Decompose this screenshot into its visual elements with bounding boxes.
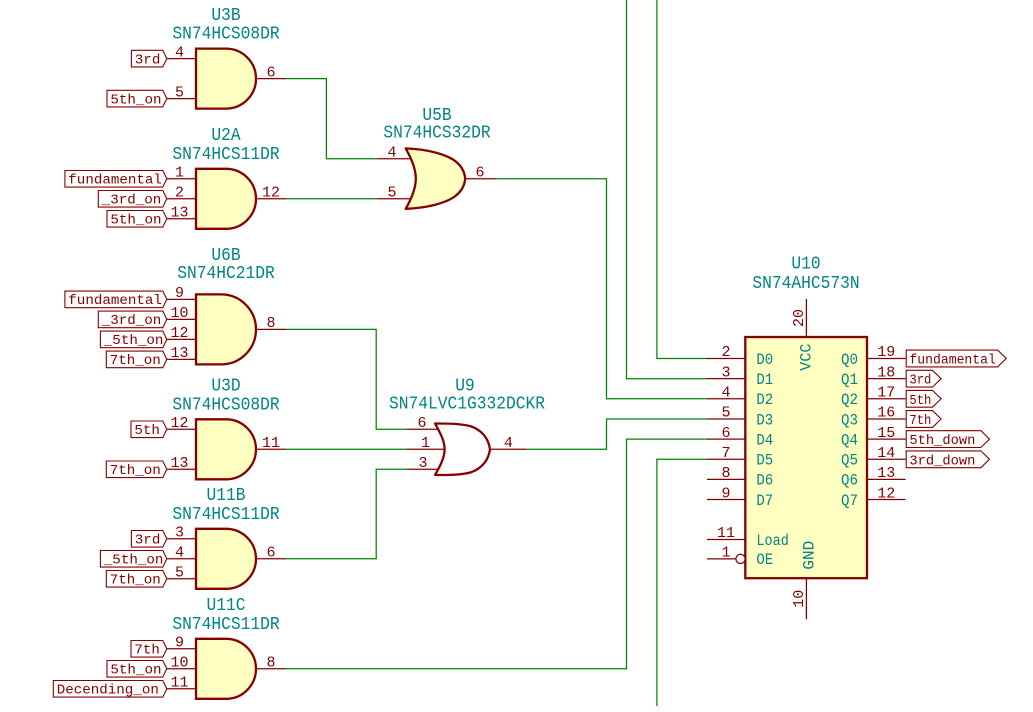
global label 7th_on bbox=[106, 351, 167, 369]
svg-text:_3rd_on: _3rd_on bbox=[101, 193, 162, 209]
svg-text:10: 10 bbox=[791, 590, 808, 608]
svg-text:_3rd_on: _3rd_on bbox=[101, 313, 162, 329]
global label 7th bbox=[131, 641, 167, 659]
U10 pin 5 D3 bbox=[707, 418, 745, 420]
global label 5th_on bbox=[107, 661, 167, 679]
AND gate U11B SN74HCS11DR bbox=[167, 485, 286, 589]
AND gate U11C SN74HCS11DR bbox=[167, 595, 286, 699]
svg-text:SN74HCS32DR: SN74HCS32DR bbox=[383, 122, 490, 143]
svg-text:12: 12 bbox=[170, 325, 188, 342]
svg-text:Q1: Q1 bbox=[841, 371, 858, 389]
svg-text:Q5: Q5 bbox=[841, 452, 858, 470]
svg-text:14: 14 bbox=[877, 445, 895, 462]
svg-text:Q2: Q2 bbox=[841, 391, 858, 409]
svg-text:7th_on: 7th_on bbox=[110, 463, 161, 479]
global label _3rd_on bbox=[98, 311, 167, 329]
svg-text:SN74LVC1G332DCKR: SN74LVC1G332DCKR bbox=[389, 394, 545, 415]
svg-text:19: 19 bbox=[877, 344, 895, 361]
AND gate U2A SN74HCS11DR bbox=[167, 125, 286, 229]
svg-text:6: 6 bbox=[266, 64, 275, 81]
svg-text:fundamental: fundamental bbox=[68, 293, 162, 309]
svg-text:U10: U10 bbox=[791, 253, 820, 274]
U10 pin 3 D1 bbox=[707, 378, 745, 380]
U10 pin 15 Q4 bbox=[867, 438, 906, 440]
svg-text:Q6: Q6 bbox=[841, 472, 858, 490]
global label fundamental bbox=[906, 350, 1006, 368]
svg-text:D0: D0 bbox=[756, 351, 773, 369]
global label 3rd bbox=[131, 531, 166, 549]
U10 pin 17 Q2 bbox=[867, 398, 906, 400]
U10 pin 4 D2 bbox=[707, 398, 745, 400]
U10 pin 19 Q0 bbox=[867, 358, 906, 360]
svg-text:2: 2 bbox=[175, 185, 184, 202]
U10 pin 7 D5 bbox=[707, 458, 745, 460]
global label 5th_down bbox=[906, 431, 989, 449]
U10 pin 14 Q5 bbox=[867, 458, 906, 460]
global label fundamental bbox=[65, 291, 167, 309]
svg-text:6: 6 bbox=[721, 425, 730, 442]
svg-text:1: 1 bbox=[175, 165, 184, 182]
svg-text:12: 12 bbox=[170, 415, 188, 432]
svg-text:12: 12 bbox=[262, 185, 280, 202]
svg-text:8: 8 bbox=[721, 465, 730, 482]
svg-text:3rd: 3rd bbox=[135, 52, 161, 68]
svg-text:6: 6 bbox=[475, 165, 484, 182]
U10 pin 16 Q3 bbox=[867, 418, 906, 420]
svg-text:Q4: Q4 bbox=[841, 431, 858, 449]
svg-text:OE: OE bbox=[756, 551, 773, 569]
svg-text:9: 9 bbox=[721, 485, 730, 502]
svg-text:2: 2 bbox=[721, 344, 730, 361]
svg-text:7th: 7th bbox=[134, 643, 160, 659]
svg-text:4: 4 bbox=[175, 545, 184, 562]
wire U6B out to U9 in6 bbox=[286, 329, 406, 429]
wire U9 out to U10 D3 bbox=[526, 419, 707, 449]
U10 pin 12 Q7 bbox=[867, 499, 906, 501]
OR gate U9 SN74LVC1G332DCKR bbox=[389, 376, 545, 475]
global label 5th bbox=[131, 421, 167, 439]
svg-text:7th: 7th bbox=[909, 413, 931, 429]
wire U11C out to U10 D4 bbox=[286, 439, 707, 669]
svg-text:5: 5 bbox=[387, 185, 396, 202]
svg-text:6: 6 bbox=[266, 545, 275, 562]
svg-text:D5: D5 bbox=[756, 452, 773, 470]
wire from top to U10 D0 bbox=[657, 0, 707, 359]
svg-text:4: 4 bbox=[387, 145, 396, 162]
svg-text:9: 9 bbox=[175, 285, 184, 302]
wire from top to U10 D1 bbox=[627, 0, 708, 379]
U10 pin 8 D6 bbox=[707, 478, 745, 480]
global label 5th_on bbox=[107, 90, 167, 108]
svg-text:1: 1 bbox=[421, 435, 430, 452]
svg-text:5th: 5th bbox=[134, 423, 160, 439]
U10 pin 18 Q1 bbox=[867, 378, 906, 380]
U10 pin 10 GND bbox=[805, 578, 807, 619]
svg-text:SN74HCS11DR: SN74HCS11DR bbox=[172, 144, 279, 165]
svg-text:11: 11 bbox=[262, 435, 280, 452]
svg-text:8: 8 bbox=[266, 655, 275, 672]
wire U2A out to U5B in5 bbox=[286, 198, 377, 200]
svg-text:5th: 5th bbox=[909, 393, 931, 409]
U10 pin 9 D7 bbox=[707, 499, 745, 501]
svg-text:Q3: Q3 bbox=[841, 411, 858, 429]
svg-text:3: 3 bbox=[721, 364, 730, 381]
svg-text:5th_on: 5th_on bbox=[110, 663, 161, 679]
svg-text:13: 13 bbox=[170, 455, 188, 472]
svg-text:11: 11 bbox=[717, 525, 735, 542]
svg-text:GND: GND bbox=[801, 541, 819, 570]
global label 7th_on bbox=[106, 571, 167, 589]
svg-text:12: 12 bbox=[877, 485, 895, 502]
svg-text:3rd: 3rd bbox=[135, 533, 161, 549]
svg-text:17: 17 bbox=[877, 385, 895, 402]
global label _5th_on bbox=[100, 331, 166, 349]
svg-text:13: 13 bbox=[170, 345, 188, 362]
global label _3rd_on bbox=[98, 191, 167, 209]
svg-text:SN74AHC573N: SN74AHC573N bbox=[752, 273, 859, 294]
wire U3D out to U9 in1 bbox=[286, 448, 406, 450]
svg-text:5: 5 bbox=[175, 84, 184, 101]
global label 5th bbox=[906, 390, 941, 408]
U10 pin 1 OE (inverted) bbox=[707, 558, 736, 560]
svg-text:8: 8 bbox=[266, 315, 275, 332]
global label 3rd bbox=[131, 50, 166, 68]
global label Decending_on bbox=[53, 681, 167, 699]
svg-text:Q7: Q7 bbox=[841, 492, 858, 510]
wire U3B out to U5B in4 bbox=[286, 79, 377, 159]
svg-text:5: 5 bbox=[721, 405, 730, 422]
svg-text:4: 4 bbox=[175, 44, 184, 61]
svg-text:3: 3 bbox=[175, 525, 184, 542]
svg-text:10: 10 bbox=[170, 655, 188, 672]
svg-text:13: 13 bbox=[170, 205, 188, 222]
svg-text:20: 20 bbox=[791, 309, 808, 327]
svg-text:D6: D6 bbox=[756, 472, 773, 490]
svg-text:D1: D1 bbox=[756, 371, 773, 389]
svg-text:5: 5 bbox=[175, 565, 184, 582]
svg-text:SN74HC21DR: SN74HC21DR bbox=[177, 263, 275, 284]
svg-text:5th_on: 5th_on bbox=[110, 213, 161, 229]
svg-text:3rd: 3rd bbox=[909, 373, 931, 389]
global label 5th_on bbox=[107, 211, 167, 229]
global label 7th bbox=[906, 411, 941, 429]
svg-text:3rd_down: 3rd_down bbox=[909, 453, 975, 469]
svg-text:SN74HCS11DR: SN74HCS11DR bbox=[172, 614, 279, 635]
svg-text:1: 1 bbox=[721, 545, 730, 562]
AND gate U3D SN74HCS08DR bbox=[167, 376, 286, 480]
4-input AND gate U6B SN74HC21DR bbox=[167, 245, 286, 365]
svg-text:16: 16 bbox=[877, 405, 895, 422]
U10 pin 11 Load bbox=[707, 539, 745, 541]
svg-text:11: 11 bbox=[170, 675, 188, 692]
wire U11B out to U9 in3 bbox=[286, 469, 406, 559]
global label 3rd_down bbox=[906, 451, 989, 469]
svg-text:15: 15 bbox=[877, 425, 895, 442]
svg-text:4: 4 bbox=[721, 385, 730, 402]
global label 3rd bbox=[906, 370, 941, 388]
svg-text:D7: D7 bbox=[756, 492, 773, 510]
U10 pin 13 Q6 bbox=[867, 478, 906, 480]
svg-text:18: 18 bbox=[877, 364, 895, 381]
svg-text:9: 9 bbox=[175, 635, 184, 652]
svg-text:3: 3 bbox=[418, 455, 427, 472]
svg-text:D4: D4 bbox=[756, 431, 773, 449]
svg-text:7th_on: 7th_on bbox=[110, 353, 161, 369]
IC U10 SN74AHC573N bbox=[707, 253, 906, 619]
svg-text:13: 13 bbox=[877, 465, 895, 482]
svg-text:_5th_on: _5th_on bbox=[103, 333, 164, 349]
U10 pin 20 VCC bbox=[805, 299, 807, 337]
svg-text:7: 7 bbox=[721, 445, 730, 462]
svg-text:VCC: VCC bbox=[798, 344, 816, 371]
global label fundamental bbox=[65, 171, 167, 189]
svg-text:Load: Load bbox=[756, 532, 789, 550]
U10 pin 2 D0 bbox=[707, 358, 745, 360]
global label 7th_on bbox=[106, 461, 167, 479]
svg-text:D3: D3 bbox=[756, 411, 773, 429]
svg-text:4: 4 bbox=[504, 435, 513, 452]
svg-text:SN74HCS08DR: SN74HCS08DR bbox=[172, 394, 279, 415]
AND gate U3B SN74HCS08DR bbox=[167, 5, 286, 109]
svg-text:D2: D2 bbox=[756, 391, 773, 409]
U10 pin 6 D4 bbox=[707, 438, 745, 440]
wire U10 D5 to bottom bbox=[657, 459, 707, 706]
svg-text:fundamental: fundamental bbox=[68, 173, 162, 189]
global label _5th_on bbox=[100, 551, 166, 569]
wire U5B out to U10 D2 bbox=[497, 179, 707, 399]
svg-text:7th_on: 7th_on bbox=[110, 573, 161, 589]
svg-text:Q0: Q0 bbox=[841, 351, 858, 369]
svg-text:SN74HCS08DR: SN74HCS08DR bbox=[172, 24, 279, 45]
OR gate U5B SN74HCS32DR bbox=[377, 105, 497, 209]
svg-text:_5th_on: _5th_on bbox=[103, 553, 164, 569]
svg-text:fundamental: fundamental bbox=[909, 353, 996, 369]
svg-text:SN74HCS11DR: SN74HCS11DR bbox=[172, 504, 279, 525]
svg-text:6: 6 bbox=[417, 415, 426, 432]
svg-text:Decending_on: Decending_on bbox=[57, 683, 159, 699]
svg-text:5th_on: 5th_on bbox=[110, 92, 161, 108]
svg-text:10: 10 bbox=[170, 305, 188, 322]
svg-text:5th_down: 5th_down bbox=[909, 433, 975, 449]
